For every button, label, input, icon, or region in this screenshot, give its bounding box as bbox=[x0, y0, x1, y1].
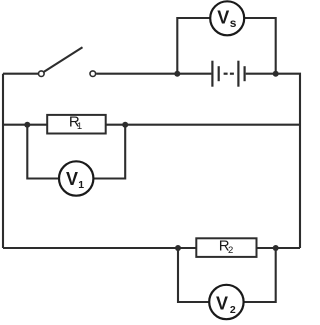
svg-text:2: 2 bbox=[228, 245, 233, 256]
wire: top wire left segment to switch bbox=[3, 73, 38, 75]
node: junction dot top-left of battery bbox=[174, 71, 180, 77]
node: junction dot right of R2 bbox=[273, 245, 279, 251]
voltmeter V1 circle bbox=[59, 161, 93, 195]
battery cell plate short (left cell -) bbox=[218, 66, 220, 81]
node: junction dot right of R1 bbox=[122, 122, 128, 128]
wire: voltmeter V2 branch right drop bbox=[244, 248, 276, 302]
voltmeter Vs circle bbox=[210, 1, 244, 35]
voltmeter V2 label bbox=[216, 294, 236, 317]
battery cell plate short (right cell -) bbox=[244, 66, 246, 81]
voltmeter V1 label bbox=[66, 169, 84, 191]
svg-text:V: V bbox=[66, 169, 78, 189]
wire: top wire right segment and right outer vertical bbox=[246, 74, 300, 248]
wire: voltmeter Vs branch right riser bbox=[244, 18, 275, 74]
node: junction dot left of R2 bbox=[175, 245, 181, 251]
wire: voltmeter Vs branch left riser bbox=[177, 18, 210, 74]
resistor R2 label bbox=[219, 238, 233, 256]
wire: voltmeter V1 branch left drop bbox=[27, 125, 59, 179]
svg-text:1: 1 bbox=[77, 121, 82, 132]
svg-text:2: 2 bbox=[230, 304, 236, 316]
switch S1 left terminal bbox=[39, 71, 45, 77]
wire: voltmeter V2 branch left drop bbox=[178, 248, 209, 302]
wire: bottom row bbox=[3, 247, 300, 249]
node: junction dot left of R1 bbox=[24, 122, 30, 128]
battery dashed gap dash 2 bbox=[230, 73, 234, 75]
switch S1 lever (open) bbox=[44, 47, 83, 72]
resistor R2 box bbox=[196, 238, 256, 257]
wire: top wire middle segment to battery bbox=[96, 73, 211, 75]
svg-text:s: s bbox=[230, 16, 237, 30]
resistor R1 label bbox=[69, 114, 82, 133]
battery cell plate long (right cell +) bbox=[237, 61, 239, 87]
voltmeter Vs label bbox=[217, 7, 237, 30]
resistor R1 box bbox=[47, 115, 105, 134]
node: junction dot top-right of battery bbox=[273, 71, 279, 77]
wire: voltmeter V1 branch right drop bbox=[94, 125, 126, 179]
wire: left outer vertical bbox=[2, 74, 4, 248]
voltmeter V2 circle bbox=[209, 285, 243, 319]
svg-text:V: V bbox=[217, 7, 229, 27]
svg-text:1: 1 bbox=[78, 179, 84, 191]
battery cell plate long (left cell +) bbox=[211, 61, 213, 87]
wire: middle row (R1 row) bbox=[3, 124, 300, 126]
svg-text:V: V bbox=[216, 294, 228, 314]
battery dashed gap dash 1 bbox=[224, 73, 228, 75]
switch S1 right terminal bbox=[90, 71, 96, 77]
